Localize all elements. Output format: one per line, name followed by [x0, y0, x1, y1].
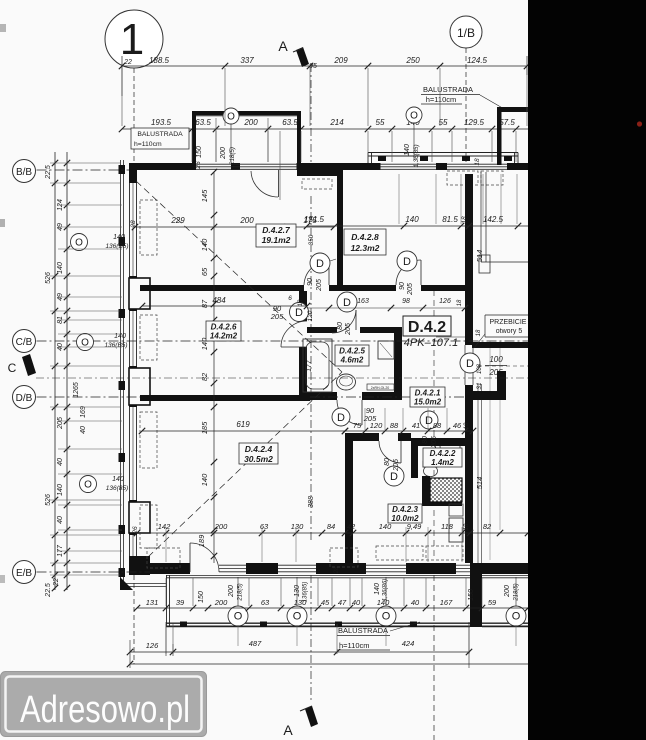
svg-text:22: 22 — [53, 578, 60, 587]
room label D.4.2.2 — [423, 448, 462, 467]
svg-text:140: 140 — [57, 484, 64, 496]
window bubble O loggia — [223, 108, 239, 124]
bathroom mirror — [378, 341, 394, 359]
dim row hall — [345, 430, 473, 432]
neighbour wall lower corner — [468, 391, 506, 400]
svg-text:140: 140 — [200, 473, 209, 486]
svg-text:140: 140 — [405, 215, 419, 224]
neighbour balcony lines — [482, 575, 528, 577]
dim chain top inner — [122, 128, 528, 130]
svg-text:526: 526 — [45, 272, 52, 284]
window spec bubble 1 — [71, 234, 88, 251]
svg-text:26: 26 — [195, 161, 202, 170]
axis bubble C/B — [13, 330, 36, 353]
svg-text:140: 140 — [200, 238, 209, 251]
wall hall/kitchen horizontal — [345, 433, 379, 441]
svg-text:O: O — [382, 611, 391, 623]
svg-text:15.0m2: 15.0m2 — [414, 398, 442, 407]
radiator dashed 2 — [481, 171, 503, 185]
svg-text:18: 18 — [461, 216, 468, 224]
svg-text:150: 150 — [196, 146, 203, 158]
door bubble D4 — [332, 408, 350, 426]
scan artifact 3 — [0, 575, 5, 583]
svg-text:19.1m2: 19.1m2 — [262, 235, 291, 245]
balustrada note left — [131, 128, 189, 149]
radiator left 2 — [140, 315, 157, 360]
wc top wall — [411, 438, 468, 446]
svg-text:337: 337 — [240, 56, 254, 65]
svg-text:80: 80 — [384, 458, 391, 466]
balcony mid centerline — [413, 123, 415, 160]
svg-text:18: 18 — [464, 523, 470, 530]
grid line 1/B dashed — [465, 48, 467, 162]
svg-text:205: 205 — [407, 283, 414, 296]
svg-text:Adresowo.pl: Adresowo.pl — [20, 689, 190, 731]
svg-text:D.4.2.7: D.4.2.7 — [262, 225, 291, 235]
svg-text:12.3m2: 12.3m2 — [351, 243, 380, 253]
svg-text:205: 205 — [393, 459, 400, 472]
svg-text:90: 90 — [307, 278, 314, 286]
door bubble D2 — [397, 251, 417, 271]
svg-text:30.5m2: 30.5m2 — [244, 454, 273, 464]
dim row D428 width — [307, 225, 528, 227]
kitchen counter dashed 2 — [426, 546, 463, 560]
axis bubble B/B — [13, 160, 36, 183]
wall D424/D423 vertical — [345, 437, 353, 563]
balcony mid balustrade — [368, 152, 518, 154]
wc door arc — [440, 446, 460, 466]
svg-text:205: 205 — [345, 323, 352, 336]
svg-text:D: D — [390, 471, 398, 483]
svg-text:22: 22 — [123, 59, 132, 66]
scan artifact 1 — [0, 24, 6, 32]
svg-text:22.5: 22.5 — [45, 583, 52, 598]
svg-text:487: 487 — [249, 639, 262, 648]
dim row 619 — [142, 430, 345, 432]
svg-text:40: 40 — [57, 516, 64, 524]
radiator left 3 — [140, 412, 157, 468]
top wall mullion pier — [231, 163, 240, 170]
svg-text:O: O — [512, 611, 521, 623]
svg-text:40: 40 — [352, 598, 361, 607]
dim chain top outer — [122, 65, 527, 67]
svg-text:D.4.2.5: D.4.2.5 — [339, 347, 365, 356]
svg-text:88: 88 — [433, 421, 442, 430]
dim row 484 — [142, 305, 307, 307]
svg-text:126: 126 — [439, 298, 451, 305]
bathroom small strip — [367, 384, 394, 390]
svg-text:1.4m2: 1.4m2 — [431, 458, 454, 467]
door arc D426 — [281, 321, 307, 347]
svg-text:131: 131 — [146, 598, 159, 607]
svg-text:108: 108 — [477, 363, 483, 374]
axis bubble D/B — [13, 386, 36, 409]
dim line bottom edge — [130, 663, 646, 665]
svg-text:59: 59 — [488, 598, 497, 607]
svg-text:514: 514 — [475, 477, 484, 490]
svg-text:18: 18 — [476, 329, 482, 336]
svg-text:250: 250 — [405, 56, 420, 65]
svg-text:O: O — [227, 112, 235, 123]
kitchen counter dashed 1 — [376, 546, 423, 560]
svg-text:140: 140 — [404, 144, 411, 156]
svg-text:142.5: 142.5 — [483, 215, 504, 224]
svg-text:75: 75 — [353, 421, 362, 430]
room label D.4.2.3 — [388, 504, 422, 523]
svg-text:205: 205 — [57, 417, 64, 430]
right apartment wall — [465, 174, 473, 345]
svg-text:28: 28 — [130, 220, 137, 229]
balcony edge — [166, 575, 168, 627]
svg-text:D: D — [337, 412, 345, 424]
svg-text:D: D — [316, 258, 324, 270]
bathroom door arc — [337, 400, 362, 425]
dimension extension lines — [191, 131, 193, 162]
svg-text:167: 167 — [440, 598, 453, 607]
top wall window left — [196, 163, 297, 165]
top wall step D427 — [297, 170, 341, 176]
wall D426 east vertical — [299, 291, 307, 321]
svg-text:214: 214 — [329, 118, 344, 127]
svg-text:88: 88 — [390, 421, 399, 430]
svg-text:185: 185 — [200, 421, 209, 434]
svg-text:81.5: 81.5 — [442, 215, 458, 224]
svg-text:D: D — [425, 415, 433, 427]
svg-text:200: 200 — [504, 585, 511, 598]
svg-text:619: 619 — [236, 420, 250, 429]
svg-text:otwory 5: otwory 5 — [496, 328, 523, 335]
przebicie opening — [464, 345, 466, 385]
svg-text:22.5: 22.5 — [45, 165, 52, 180]
grid line 1 dashed — [133, 68, 135, 162]
svg-text:63.5: 63.5 — [195, 118, 211, 127]
aux vertical dashed 1/B low — [433, 290, 435, 560]
svg-text:41: 41 — [412, 421, 420, 430]
svg-text:h=110cm: h=110cm — [339, 641, 370, 650]
svg-text:18: 18 — [457, 299, 463, 306]
svg-text:D.4.2: D.4.2 — [408, 319, 446, 336]
svg-text:350: 350 — [308, 234, 315, 245]
svg-text:40: 40 — [411, 598, 420, 607]
scan artifact 2 — [0, 219, 5, 227]
dim row D427 — [135, 226, 334, 228]
svg-text:BALUSTRADA: BALUSTRADA — [338, 626, 388, 635]
svg-text:2xRH-OL20: 2xRH-OL20 — [371, 386, 390, 390]
svg-text:129.5: 129.5 — [464, 118, 485, 127]
svg-text:26: 26 — [132, 526, 139, 535]
window bubble O bottom 297 — [287, 606, 307, 626]
svg-text:200: 200 — [228, 585, 235, 598]
aux dashed line y366 — [478, 365, 528, 367]
axis line C/B — [37, 340, 529, 342]
svg-text:200: 200 — [243, 118, 258, 127]
room label D.4.2.8 — [344, 229, 386, 255]
svg-text:6: 6 — [288, 295, 292, 302]
svg-text:4.6m2: 4.6m2 — [340, 356, 364, 365]
wc toilet — [423, 461, 438, 467]
left wall piers — [129, 163, 137, 183]
section line A-A — [310, 64, 312, 162]
window bubble O bottom 386 — [376, 606, 396, 626]
neighbour bottom wall — [482, 563, 528, 574]
svg-text:200: 200 — [220, 147, 227, 160]
svg-text:118: 118 — [441, 522, 454, 531]
room label D.4.2.6 — [206, 321, 241, 341]
svg-text:46: 46 — [453, 421, 462, 430]
svg-text:E/B: E/B — [16, 568, 32, 579]
svg-text:209: 209 — [333, 56, 348, 65]
svg-text:40: 40 — [80, 426, 87, 434]
terrace posts — [119, 165, 126, 174]
svg-text:63: 63 — [260, 522, 269, 531]
top exterior wall segments — [129, 163, 196, 170]
svg-text:1265: 1265 — [73, 382, 80, 398]
svg-text:145: 145 — [200, 189, 209, 202]
bathroom right wall — [394, 327, 402, 400]
svg-text:80: 80 — [337, 322, 344, 330]
svg-text:140: 140 — [374, 583, 381, 595]
svg-text:130: 130 — [294, 598, 307, 607]
svg-text:136(B5): 136(B5) — [104, 342, 127, 349]
svg-text:O: O — [75, 238, 83, 249]
svg-text:82: 82 — [200, 372, 209, 381]
svg-text:45: 45 — [321, 598, 330, 607]
svg-text:120: 120 — [307, 310, 314, 321]
window bubble O bottom 516 — [506, 606, 526, 626]
neighbour small rect — [479, 255, 490, 273]
przebicie note — [485, 314, 528, 316]
svg-text:177: 177 — [306, 359, 313, 372]
svg-text:126: 126 — [146, 641, 159, 650]
door bubble D3 — [290, 303, 309, 322]
wardrobe dashed 1 — [147, 548, 180, 568]
roof line upper — [136, 181, 342, 372]
window spec bubble 2 — [77, 334, 94, 351]
svg-text:124.5: 124.5 — [467, 56, 488, 65]
svg-text:150: 150 — [198, 591, 205, 603]
svg-text:63.5: 63.5 — [282, 118, 298, 127]
kitchen appliance 2 — [449, 518, 463, 542]
svg-text:D: D — [295, 307, 303, 319]
svg-text:BALUSTRADA: BALUSTRADA — [137, 131, 183, 138]
svg-text:200: 200 — [214, 598, 228, 607]
top wall window mid2 — [447, 163, 507, 165]
axis line D/B — [37, 396, 141, 398]
wall D427/D426 horizontal — [140, 285, 304, 291]
svg-text:47: 47 — [338, 598, 347, 607]
svg-text:D.4.2.1: D.4.2.1 — [415, 389, 441, 398]
door bubble D5 — [384, 466, 404, 486]
svg-text:A: A — [283, 722, 293, 738]
svg-text:h=110cm: h=110cm — [426, 95, 457, 104]
svg-text:D.4.2.6: D.4.2.6 — [211, 323, 237, 332]
svg-text:218(5): 218(5) — [514, 583, 520, 601]
svg-text:229: 229 — [170, 216, 185, 225]
svg-text:A: A — [278, 38, 288, 54]
svg-text:O: O — [234, 611, 243, 623]
top right balcony walls — [497, 107, 528, 112]
svg-text:1/B: 1/B — [457, 26, 475, 40]
room label D.4.2.1 — [410, 387, 445, 407]
svg-text:D.4.2.2: D.4.2.2 — [430, 449, 456, 458]
radiator left 1 — [140, 200, 157, 255]
section flag bottom — [305, 706, 318, 727]
svg-text:D.4.2.3: D.4.2.3 — [392, 505, 418, 514]
dim row kitchen — [137, 532, 528, 534]
roof line lower — [148, 372, 342, 557]
svg-text:1,36(85): 1,36(85) — [413, 144, 420, 167]
svg-text:151.5: 151.5 — [304, 215, 325, 224]
window spec bubble 3 — [80, 476, 97, 493]
svg-text:1: 1 — [120, 15, 144, 64]
svg-text:140: 140 — [113, 234, 125, 241]
neighbour thin verticals — [477, 384, 479, 563]
svg-text:B/B: B/B — [16, 167, 32, 178]
door bubble D1 — [310, 253, 330, 273]
svg-text:18: 18 — [464, 422, 470, 429]
svg-text:140: 140 — [57, 262, 64, 274]
room label D.4.2.5 — [335, 345, 369, 366]
svg-text:136(85): 136(85) — [106, 485, 128, 492]
svg-text:205: 205 — [316, 279, 323, 292]
svg-text:80: 80 — [422, 436, 429, 444]
door arc hall from D428 — [396, 260, 421, 285]
door bubble D8 — [337, 292, 357, 312]
svg-text:169: 169 — [80, 406, 87, 418]
wardrobe dashed 2 — [330, 548, 358, 567]
wall D428/hall horizontal — [343, 285, 396, 291]
section flag top — [296, 47, 309, 67]
dim row bottom outer — [130, 651, 470, 653]
svg-text:O: O — [293, 611, 302, 623]
neighbour vertical lines — [480, 172, 482, 262]
svg-text:D: D — [343, 297, 351, 309]
svg-text:BALUSTRADA: BALUSTRADA — [423, 85, 473, 94]
balcony slab lines — [166, 575, 470, 577]
svg-text:18: 18 — [298, 299, 304, 306]
red speck — [637, 121, 642, 126]
kitchen appliance 1 — [449, 504, 463, 516]
svg-text:D: D — [466, 358, 474, 370]
left wall pier blocks — [129, 278, 150, 309]
svg-text:PRZEBICIE: PRZEBICIE — [490, 319, 527, 326]
svg-text:200: 200 — [214, 522, 228, 531]
apartment label D.4.2 — [403, 316, 451, 336]
svg-text:O: O — [410, 111, 418, 122]
svg-text:42: 42 — [347, 522, 356, 531]
loggia walls — [192, 111, 301, 116]
door arc D427 — [304, 261, 329, 285]
svg-text:82: 82 — [483, 522, 492, 531]
balcony door arc bottom — [190, 543, 219, 572]
vertical dim chain rooms — [213, 172, 215, 563]
shaft walls — [422, 476, 430, 504]
wall D426/D424 horizontal — [140, 395, 310, 401]
svg-text:98: 98 — [402, 298, 410, 305]
neighbour wall stub upper — [472, 342, 528, 348]
room label D.4.2.4 — [239, 443, 278, 464]
window bubble O bottom 238 — [228, 606, 248, 626]
svg-text:57.5: 57.5 — [499, 118, 515, 127]
grid bubble 1/B — [450, 16, 482, 48]
svg-text:205: 205 — [431, 436, 438, 449]
svg-text:18: 18 — [474, 158, 481, 166]
bathtub — [303, 339, 332, 392]
terrace corner mark — [120, 577, 133, 590]
bottom wall windows — [219, 564, 246, 566]
svg-text:130: 130 — [294, 585, 301, 597]
corridor door arc bathroom — [332, 310, 356, 333]
window bubble O mid — [406, 107, 422, 123]
svg-text:514: 514 — [475, 250, 484, 263]
door bubble D6 — [420, 411, 438, 429]
balcony posts — [180, 622, 187, 628]
left wall lines — [129, 163, 131, 575]
wall D427/D428 vertical — [337, 170, 343, 291]
svg-text:31: 31 — [476, 382, 483, 390]
grid bubble 1 — [105, 10, 163, 68]
svg-text:218(5): 218(5) — [238, 583, 244, 601]
left dim line outer — [54, 152, 56, 590]
radiator left 4 — [140, 505, 157, 548]
svg-text:4PK–107.1: 4PK–107.1 — [404, 337, 458, 349]
svg-text:188.5: 188.5 — [149, 56, 170, 65]
dim row bottom — [137, 607, 528, 609]
svg-text:150: 150 — [468, 589, 475, 601]
svg-text:D.4.2.8: D.4.2.8 — [351, 232, 379, 242]
svg-text:63: 63 — [261, 598, 270, 607]
bathroom bottom wall — [299, 392, 337, 400]
loggia centerline — [230, 124, 232, 162]
svg-text:87: 87 — [200, 299, 209, 308]
svg-text:193.5: 193.5 — [151, 118, 172, 127]
svg-text:55: 55 — [376, 118, 385, 127]
bathroom top wall — [307, 327, 337, 333]
black margin bar — [528, 0, 646, 740]
svg-text:140: 140 — [112, 476, 124, 483]
terrace edge lines — [120, 160, 122, 586]
aux dashed line y378 axis C — [36, 377, 528, 379]
kitchen door arc — [379, 441, 401, 463]
svg-text:D.4.2.4: D.4.2.4 — [245, 444, 273, 454]
svg-text:177: 177 — [57, 544, 64, 557]
svg-text:65: 65 — [200, 267, 209, 276]
room label D.4.2.7 — [256, 224, 296, 247]
shaft hatched box — [430, 478, 462, 502]
svg-text:388: 388 — [308, 496, 315, 508]
axis bubble E/B — [13, 561, 36, 584]
svg-text:h=110cm: h=110cm — [134, 141, 162, 148]
loggia door arc — [251, 171, 278, 197]
watermark adresowo — [1, 672, 207, 737]
bottom exterior wall corner — [129, 556, 150, 575]
svg-text:39: 39 — [176, 598, 185, 607]
door bubble D7 — [460, 353, 480, 373]
svg-text:C: C — [8, 361, 17, 375]
axis line B/B — [37, 169, 130, 171]
svg-text:142: 142 — [158, 522, 171, 531]
wc left wall — [411, 438, 418, 478]
svg-text:O: O — [84, 480, 92, 491]
svg-text:90: 90 — [399, 282, 406, 290]
svg-text:14.2m2: 14.2m2 — [210, 332, 238, 341]
svg-text:100: 100 — [489, 355, 503, 364]
svg-text:C/B: C/B — [16, 337, 33, 348]
svg-text:130: 130 — [291, 522, 304, 531]
corner wall right balcony — [470, 563, 482, 627]
svg-text:40: 40 — [57, 458, 64, 466]
radiator dashed 1 — [447, 171, 478, 185]
